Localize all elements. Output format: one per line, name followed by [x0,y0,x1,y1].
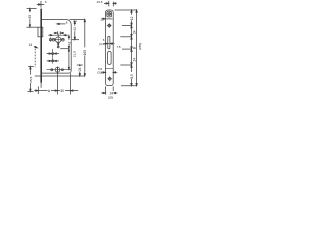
plate top extension right [115,9,138,11]
chain tick y65 [120,64,132,66]
svg-text:24: 24 [133,58,137,62]
faceplate front view outline [106,10,114,86]
svg-text:35: 35 [28,15,32,19]
chain tick y49.1 [122,48,132,50]
plate bottom extension right [121,85,137,87]
fixing hole lower [52,60,54,62]
svg-text:165: 165 [83,50,87,56]
svg-text:44: 44 [73,27,77,31]
inner chain dim x68.9 [68,35,70,69]
svg-text:24: 24 [78,67,82,71]
svg-text:42: 42 [67,41,71,45]
cylinder centerline [47,69,72,71]
dim 30 [58,90,71,92]
cylinder small hole right [61,69,63,71]
chain tick y36.8 [120,36,132,38]
cylinder small hole left [51,69,53,71]
dim 35 label [28,12,32,19]
overall dim 235 [136,10,138,86]
plate tick line y68.7 [106,68,114,70]
svg-text:24: 24 [133,30,137,34]
dashed thrown-bolt line [34,49,36,68]
svg-text:(3,8): (3,8) [97,71,103,75]
cylinder hole [55,67,60,72]
latch cutout bottom line [106,18,112,20]
svg-text:3: 3 [45,0,47,4]
follower width dim line [48,34,52,36]
dim 3 extension tick [40,1,42,8]
chain label 8,5 [130,72,134,79]
dim 8 arrows [54,32,57,34]
follower hub [55,37,61,43]
dim 165 x84.8 [84,19,86,76]
hole below follower with arrow [58,44,59,46]
dim A [38,90,57,92]
dim 35 bottom extension [26,26,38,28]
svg-text:8,5: 8,5 [130,74,134,79]
dim 3 overshoot [42,4,45,6]
fixing holes column line [52,49,54,64]
upper slot [108,36,110,49]
svg-text:7,5: 7,5 [117,45,121,49]
latch bolt side view [38,27,43,37]
fixing hole left of follower [49,39,51,41]
dim 8 ticks [56,31,58,34]
svg-text:(20): (20) [108,96,113,100]
chain tick y25.5 [122,25,132,27]
svg-text:25,5: 25,5 [29,76,33,82]
chain label 12 [130,15,134,21]
screw hole top [108,24,111,27]
svg-text:13,5: 13,5 [96,0,102,4]
svg-text:(235): (235) [138,43,142,50]
svg-text:21,5: 21,5 [72,51,76,57]
svg-text:(3,4): (3,4) [99,42,105,46]
cylinder width dim arrows [101,71,105,73]
bottom left dim 25,5 [28,66,34,68]
dim 35 top extension [27,7,37,9]
dim A outside arrow [34,90,38,92]
bottom dim extensions [40,83,42,88]
extension line y19.3 [70,18,85,20]
svg-text:8: 8 [66,20,68,24]
svg-text:12: 12 [130,16,134,20]
lock case outline [42,20,71,74]
dim 35 line [29,8,31,27]
dim 3 arrow line [37,4,41,6]
svg-text:B: B [133,47,137,49]
extension from hole to chain [60,48,69,50]
dim V1 x74.8 [73,20,77,22]
faceplate side-view bar [40,9,42,83]
bottom mystery extension line y76 [35,75,85,77]
svg-text:30: 30 [60,89,64,93]
dead bolt slot [108,52,112,65]
plate tick line y43.6 [106,43,114,45]
follower extension tick [72,39,79,41]
dim 24 x79.8 [77,64,83,66]
fixing hole upper [52,53,54,55]
chain dim line [131,10,133,86]
screw hole bottom [108,78,111,81]
latch cutout [107,11,112,17]
slot width dim [103,43,107,45]
leader 8 [57,23,59,24]
overshoot arrow [71,90,79,92]
svg-text:14: 14 [29,43,33,47]
plate width dim 24 (20) [105,86,107,94]
